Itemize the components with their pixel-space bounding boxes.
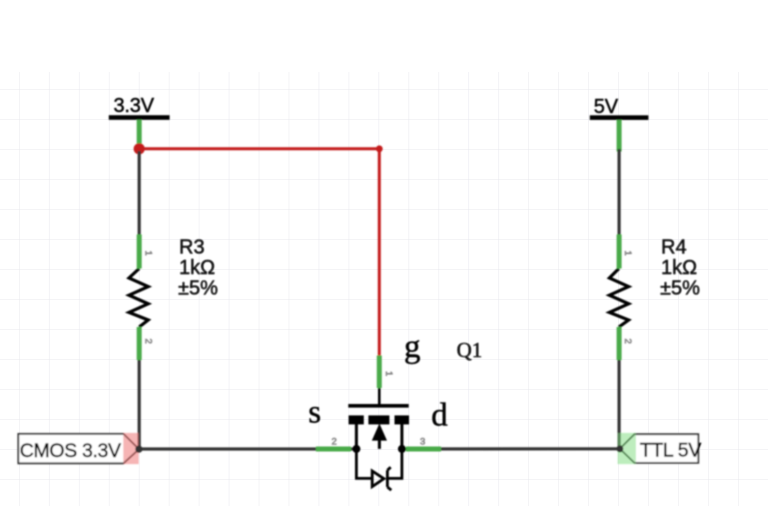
Q1 channel bar drain [395,415,410,424]
label R4 value [660,237,700,300]
pin of 3.3V power symbol (green) [137,120,142,146]
svg-text:R3: R3 [179,237,205,259]
junction: CMOS node [135,446,142,453]
svg-text:1kΩ: 1kΩ [661,257,697,279]
svg-text:3: 3 [420,437,425,448]
svg-text:2: 2 [332,437,337,448]
svg-text:1: 1 [142,251,153,256]
wire: right rail from 5V down to R4 pin 1 [617,149,620,237]
svg-text:1: 1 [622,251,633,256]
Q1 gate wire stub [378,386,381,405]
Q1 source leg [355,424,358,449]
net label CMOS 3.3V [18,433,139,464]
net label TTL 5V [618,433,702,464]
Q1 body arrow [372,424,387,441]
svg-text:2: 2 [142,339,153,344]
Q1 drain pin (green) [406,447,441,452]
Q1 channel bar source [349,415,364,424]
svg-text:Q1: Q1 [457,338,483,362]
pin of 5V power symbol (green) [617,120,622,152]
wire: red net horizontal segment [139,147,379,150]
wire: left rail from red junction down to R3 pin 1 [138,151,141,237]
resistor R3 [129,269,148,328]
R3 pin 2 (green) [137,327,142,360]
svg-text:1: 1 [383,371,394,376]
R3 pin 1 (green) [137,235,142,269]
Q1 channel bar middle [368,415,389,424]
junction: Q1 source node [352,445,360,453]
Q1 body arrow stem [378,440,381,449]
svg-text:±5%: ±5% [178,278,218,300]
Q1 gate pin (green) [377,356,382,389]
R4 pin 2 (green) [617,327,622,360]
svg-text:g: g [404,329,421,365]
wire: bottom wire Q1 drain to TTL node [402,447,620,450]
svg-text:2: 2 [622,339,633,344]
resistor R4 [609,269,628,328]
Q1 body diode [356,449,402,490]
svg-text:CMOS 3.3V: CMOS 3.3V [20,440,121,462]
junction: Q1 drain node [398,445,406,453]
power symbol 3.3V [109,95,170,120]
svg-text:R4: R4 [661,237,687,259]
svg-text:s: s [308,395,321,431]
wire: bottom wire CMOS node to Q1 source pin [139,447,357,450]
label R3 value [178,237,218,300]
svg-text:TTL 5V: TTL 5V [640,440,701,462]
wire: red net vertical segment to gate [378,149,381,357]
junction: red wire corner dot [376,145,383,152]
Q1 gate bar [348,404,408,408]
Q1 source pin (green) [316,447,351,452]
svg-text:3.3V: 3.3V [114,95,155,117]
svg-text:5V: 5V [594,96,619,118]
junction: red net at 3.3V rail [134,143,145,154]
svg-text:d: d [431,398,448,434]
Q1 drain leg [400,424,403,449]
svg-text:1kΩ: 1kΩ [179,257,215,279]
R4 pin 1 (green) [617,235,622,269]
power symbol 5V [590,96,649,120]
wire: right rail from R4 pin 2 down to TTL node [617,358,620,449]
transistor Q1 (N-MOSFET) [348,386,409,449]
junction: TTL node [617,445,624,452]
wire: left rail from R3 pin 2 down to CMOS node [138,358,141,449]
svg-text:±5%: ±5% [660,278,700,300]
